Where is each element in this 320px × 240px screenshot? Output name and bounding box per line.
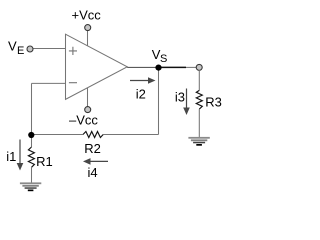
wire: inverting input vertical down to junction bbox=[31, 83, 33, 134]
svg-text:V: V bbox=[8, 39, 17, 54]
svg-text:+Vcc: +Vcc bbox=[72, 8, 102, 23]
op-amp plus input symbol bbox=[69, 47, 77, 55]
svg-text:–Vcc: –Vcc bbox=[69, 113, 98, 128]
wire: R1 to ground bbox=[31, 167, 33, 182]
resistor R2 bbox=[83, 132, 103, 138]
wire: inverting input horizontal bbox=[32, 82, 66, 84]
op-amp U1 triangle bbox=[66, 34, 128, 99]
terminal VE bbox=[27, 46, 33, 52]
wire: gray segment to output terminal bbox=[186, 66, 197, 68]
svg-text:R2: R2 bbox=[84, 141, 101, 156]
wire: -Vcc stub bbox=[87, 88, 89, 107]
wire: VE input to op-amp non-inverting input bbox=[30, 48, 66, 50]
current arrow i2 bbox=[130, 77, 156, 84]
svg-text:R1: R1 bbox=[36, 154, 53, 169]
current arrow i1 bbox=[17, 140, 24, 171]
svg-text:R3: R3 bbox=[205, 94, 222, 109]
wire: feedback horizontal left of R2 bbox=[32, 134, 84, 136]
node Vs junction dot bbox=[155, 65, 161, 71]
svg-text:E: E bbox=[17, 45, 24, 57]
wire: feedback horizontal right of R2 bbox=[103, 134, 158, 136]
ground (left) bbox=[20, 182, 41, 191]
current arrow i3 bbox=[183, 89, 190, 116]
terminal -Vcc bbox=[85, 107, 91, 113]
wire: feedback vertical from Vs node bbox=[158, 67, 160, 134]
wire: op-amp output to node Vs bbox=[127, 66, 158, 68]
wire: +Vcc stub bbox=[87, 31, 89, 46]
svg-text:i4: i4 bbox=[88, 165, 98, 180]
resistor R1 bbox=[28, 147, 34, 167]
wire: junction down to R1 bbox=[31, 135, 33, 148]
resistor R3 bbox=[196, 90, 202, 109]
svg-text:S: S bbox=[160, 53, 167, 65]
current arrow i4 bbox=[83, 158, 108, 165]
node junction dot (R1/R2 node) bbox=[28, 132, 34, 138]
terminal +Vcc bbox=[85, 25, 91, 31]
op-amp minus input symbol bbox=[69, 82, 77, 84]
wire: node Vs to right (black segment) bbox=[158, 66, 186, 68]
wire: R3 to ground bbox=[198, 109, 200, 137]
svg-text:i1: i1 bbox=[6, 149, 16, 164]
svg-text:i2: i2 bbox=[136, 86, 146, 101]
terminal output bbox=[196, 64, 202, 70]
svg-text:i3: i3 bbox=[175, 90, 185, 105]
ground (right) bbox=[188, 137, 209, 146]
wire: output terminal down to R3 bbox=[198, 70, 200, 90]
